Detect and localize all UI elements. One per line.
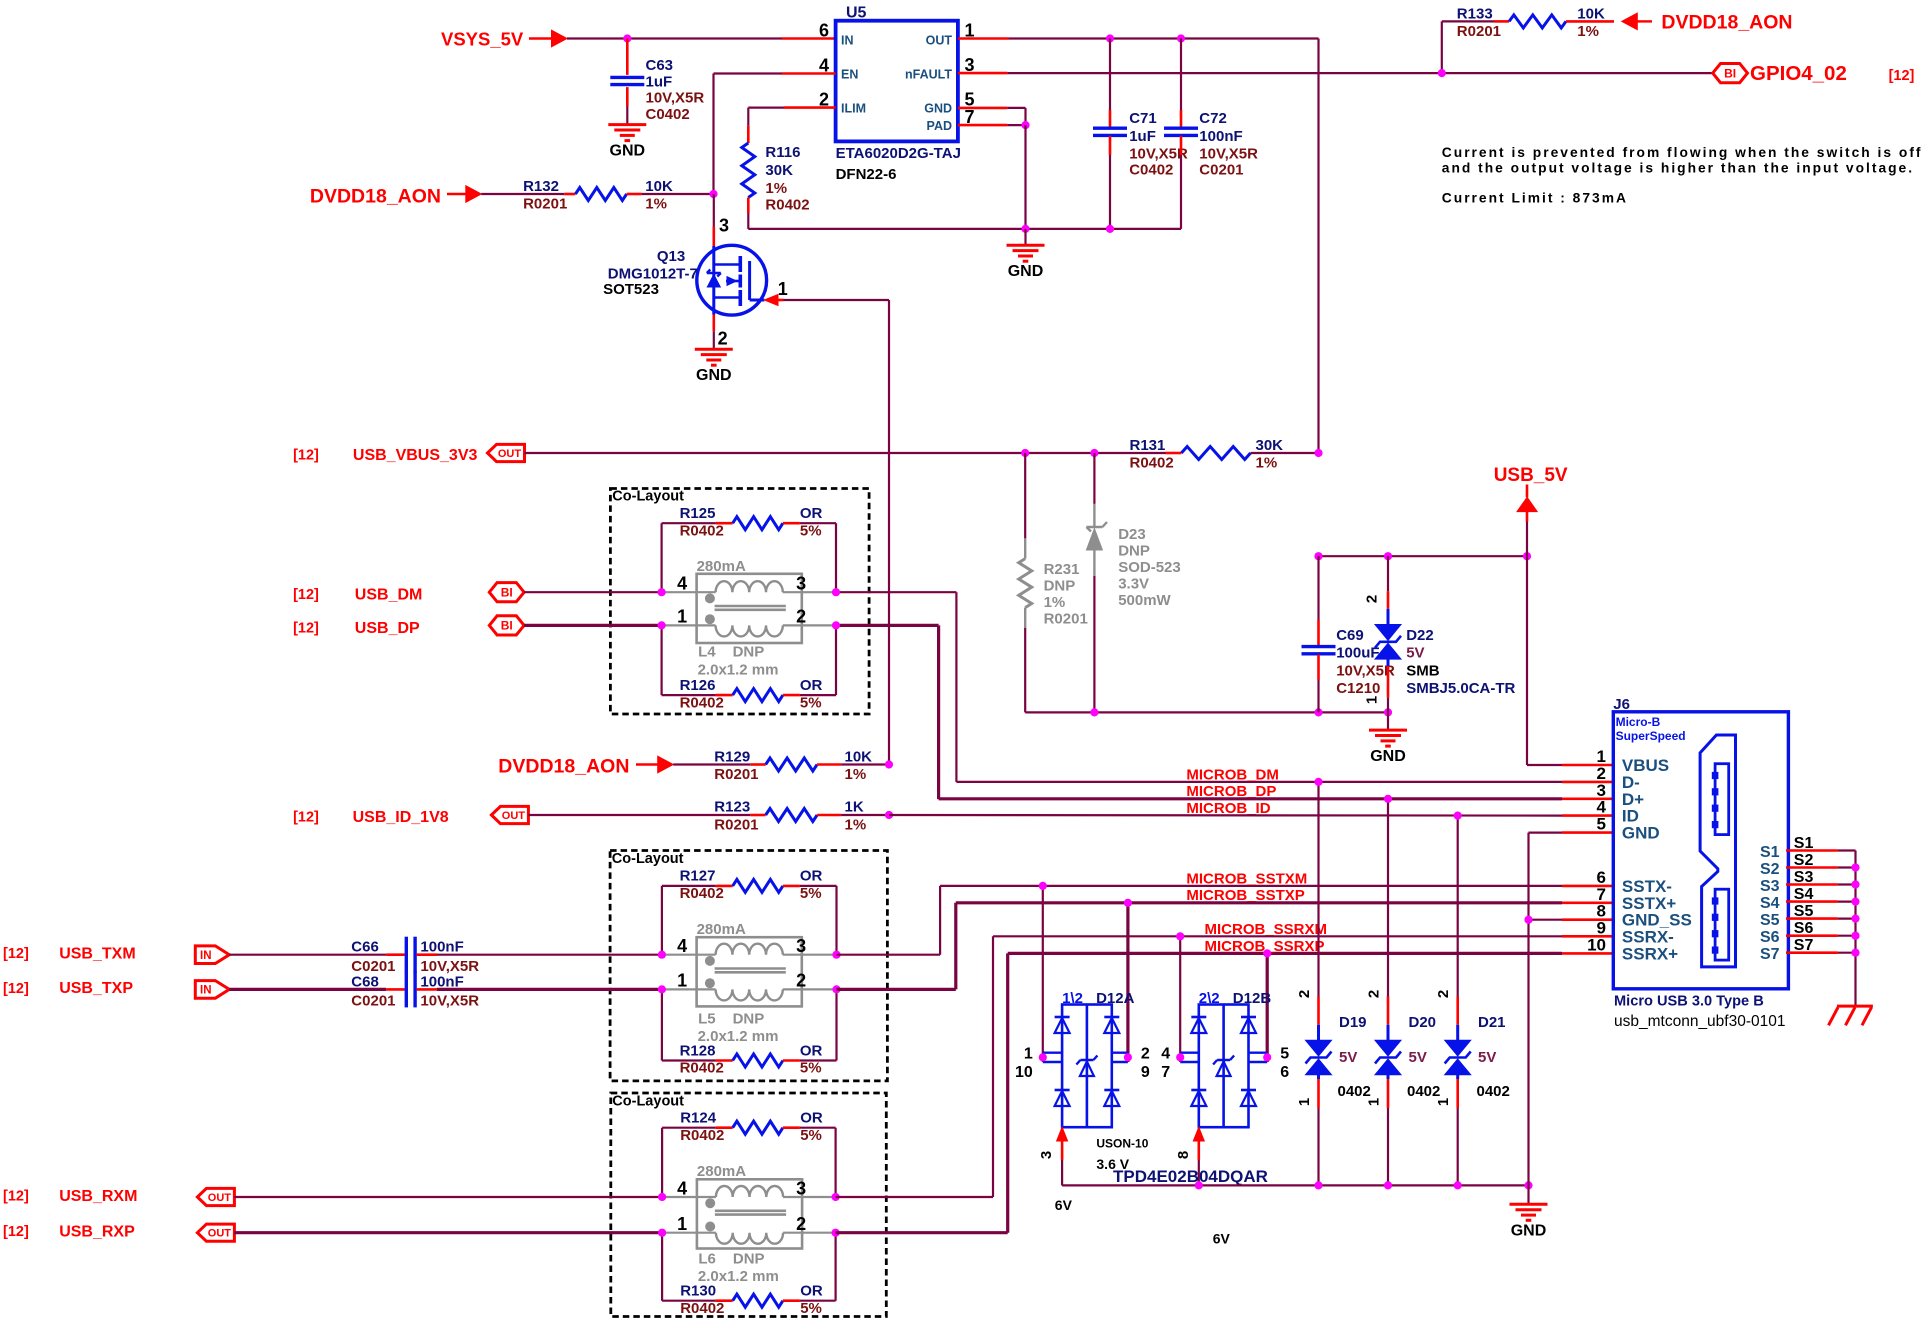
svg-text:OUT: OUT	[502, 810, 526, 822]
port USB_TXM IN	[3, 946, 229, 964]
svg-text:USON-10: USON-10	[1096, 1137, 1148, 1151]
wire GND rail R231-D23-C69-D22	[1025, 711, 1388, 713]
svg-text:R0402: R0402	[680, 1060, 724, 1077]
svg-text:5%: 5%	[800, 1060, 822, 1077]
svg-text:10V,X5R: 10V,X5R	[1129, 146, 1188, 163]
svg-text:5: 5	[1597, 815, 1606, 834]
wire MICROB_SSRXP	[836, 953, 1614, 1232]
svg-text:R0402: R0402	[680, 694, 724, 711]
svg-text:1: 1	[677, 1214, 687, 1234]
svg-text:1%: 1%	[1044, 594, 1066, 611]
svg-text:3: 3	[1038, 1151, 1055, 1159]
node D23 bottom junction	[1090, 708, 1098, 716]
diode D19 TVS 5V	[1296, 782, 1371, 1186]
svg-text:OR: OR	[800, 1042, 823, 1059]
svg-text:280mA: 280mA	[697, 558, 746, 575]
node VSYS junction at C63	[623, 34, 631, 42]
svg-text:R132: R132	[523, 178, 559, 195]
svg-text:S5: S5	[1794, 903, 1814, 920]
svg-text:USB_RXM: USB_RXM	[59, 1188, 137, 1205]
U5 pin 1 number	[965, 21, 975, 41]
wire MICROB_DM vertical and horizontal	[956, 592, 1613, 782]
svg-text:S4: S4	[1760, 895, 1780, 912]
inductor L6 common-mode choke DNP	[662, 1163, 837, 1285]
svg-text:Micro-B: Micro-B	[1616, 715, 1661, 729]
L4 pin 2 number	[796, 607, 806, 627]
U5 pin 2 number	[819, 90, 829, 110]
svg-text:BI: BI	[501, 619, 513, 633]
resistor R131 30K	[1130, 437, 1319, 472]
svg-text:S5: S5	[1760, 912, 1780, 929]
wire bottom GND rail of protection diodes	[1062, 1184, 1528, 1186]
svg-text:Co-Layout: Co-Layout	[612, 489, 684, 505]
svg-text:10: 10	[1587, 935, 1606, 954]
node USB_RXP right	[832, 1229, 840, 1237]
svg-text:R0402: R0402	[765, 197, 809, 214]
U5 pin 6 number	[819, 21, 829, 41]
svg-text:S2: S2	[1760, 861, 1780, 878]
svg-text:7: 7	[1161, 1064, 1170, 1081]
svg-text:D22: D22	[1406, 627, 1434, 644]
wire USB_5V to J6 VBUS	[1527, 556, 1613, 765]
svg-text:S4: S4	[1794, 886, 1814, 903]
svg-text:USB_RXP: USB_RXP	[59, 1224, 135, 1241]
power input port VSYS_5V	[441, 29, 567, 50]
svg-text:R116: R116	[765, 144, 800, 161]
svg-text:6V: 6V	[1055, 1197, 1073, 1213]
svg-text:5%: 5%	[800, 1127, 822, 1144]
node D12B top tap on SSRXM	[1176, 932, 1184, 940]
wire USB_VBUS_3V3	[525, 452, 1166, 454]
node D20 tap on MICROB_DP	[1384, 795, 1392, 803]
svg-text:R127: R127	[680, 868, 716, 885]
svg-text:GND: GND	[924, 102, 952, 116]
svg-text:Current is prevented from flow: Current is prevented from flowing when t…	[1442, 145, 1923, 160]
capacitor C68 100nF	[229, 971, 479, 1009]
svg-text:[12]: [12]	[293, 810, 319, 826]
node USB_DM right	[832, 588, 840, 596]
L4 pin 1 number	[677, 607, 687, 627]
svg-text:OR: OR	[800, 505, 823, 522]
port USB_RXM OUT	[3, 1188, 234, 1206]
wire MICROB_DP vertical and horizontal	[939, 625, 1614, 799]
co-layout group 2 dashed box	[610, 851, 887, 1081]
net label MICROB_SSRXP	[1205, 938, 1325, 955]
svg-text:5%: 5%	[800, 522, 822, 539]
diode D21 TVS 5V	[1435, 816, 1510, 1186]
svg-text:1uF: 1uF	[1129, 128, 1156, 145]
svg-text:R0402: R0402	[680, 522, 724, 539]
node C69 bottom junction	[1314, 708, 1322, 716]
svg-text:3.3V: 3.3V	[1118, 576, 1149, 593]
svg-text:1: 1	[677, 607, 687, 627]
resistor R128 0R	[662, 989, 837, 1076]
svg-text:DFN22-6: DFN22-6	[836, 166, 897, 183]
net label MICROB_SSTXM	[1186, 870, 1307, 887]
L6 pin 1 number	[677, 1214, 687, 1234]
node USB_TXP left	[658, 985, 666, 993]
svg-text:500mW: 500mW	[1118, 592, 1171, 609]
J6 pin 10 SSRX+	[1587, 935, 1678, 963]
svg-text:1: 1	[1024, 1046, 1033, 1063]
wire Q13 gate to MICROB_ID vertical	[784, 300, 890, 765]
L5 pin 2 number	[796, 971, 806, 991]
wire USB_DM	[524, 591, 956, 593]
svg-text:DMG1012T-7: DMG1012T-7	[608, 266, 698, 283]
wire U5 nFAULT to GPIO4_02	[958, 72, 1713, 75]
svg-text:1: 1	[1435, 1098, 1452, 1106]
wire MICROB_SSTXM	[837, 886, 1614, 955]
svg-text:9: 9	[1141, 1064, 1150, 1081]
svg-text:1uF: 1uF	[646, 74, 673, 91]
svg-text:BI: BI	[501, 586, 513, 600]
svg-text:C66: C66	[351, 939, 379, 956]
svg-text:SOD-523: SOD-523	[1118, 559, 1181, 576]
svg-text:GND: GND	[1008, 263, 1044, 280]
svg-text:3: 3	[796, 574, 806, 594]
resistor R123 1K	[528, 799, 889, 834]
J6 pin 8 GND_SS	[1597, 902, 1692, 930]
svg-text:PAD: PAD	[927, 119, 952, 133]
svg-text:10V,X5R: 10V,X5R	[1336, 662, 1395, 679]
ground below C63	[608, 125, 646, 160]
svg-text:L4: L4	[698, 644, 716, 661]
svg-text:OUT: OUT	[208, 1228, 232, 1240]
svg-text:10V,X5R: 10V,X5R	[420, 992, 479, 1009]
svg-text:C1210: C1210	[1336, 680, 1380, 697]
svg-text:R231: R231	[1044, 561, 1080, 578]
L5 pin 4 number	[677, 936, 687, 956]
svg-text:R0402: R0402	[680, 1300, 724, 1317]
TVS array D12B TPD4E02B04DQAR unit 2	[1113, 936, 1289, 1246]
svg-text:MICROB_SSRXM: MICROB_SSRXM	[1205, 921, 1328, 938]
svg-text:nFAULT: nFAULT	[905, 68, 952, 82]
svg-text:R125: R125	[680, 505, 716, 522]
svg-text:R133: R133	[1457, 6, 1493, 23]
svg-text:1: 1	[677, 971, 687, 991]
net label MICROB_SSTXP	[1186, 887, 1304, 904]
svg-text:MICROB_DP: MICROB_DP	[1186, 783, 1276, 800]
wire R133 to GPIO net	[1441, 21, 1443, 73]
svg-text:5V: 5V	[1339, 1049, 1357, 1066]
svg-text:5V: 5V	[1406, 645, 1424, 662]
svg-text:USB_DP: USB_DP	[355, 620, 420, 637]
svg-text:OUT: OUT	[208, 1192, 232, 1204]
J6 pin S5	[1760, 903, 1860, 929]
svg-text:280mA: 280mA	[697, 1163, 746, 1180]
svg-text:S1: S1	[1794, 835, 1814, 852]
svg-text:ILIM: ILIM	[841, 102, 866, 116]
svg-text:L5: L5	[698, 1011, 716, 1028]
svg-text:C0201: C0201	[351, 992, 395, 1009]
L5 pin 3 number	[796, 936, 806, 956]
node D19 tap on MICROB_DM	[1314, 778, 1322, 786]
ground below protection rail	[1510, 1185, 1548, 1239]
svg-text:[12]: [12]	[1889, 68, 1915, 84]
node GND_SS pin 8 tap	[1524, 916, 1532, 924]
svg-text:10: 10	[1015, 1064, 1033, 1081]
J6 pin S4	[1760, 886, 1860, 912]
connector J6 Micro USB 3.0 Type B body	[1613, 696, 1788, 1030]
svg-text:R124: R124	[680, 1110, 717, 1127]
port USB_DM BI	[293, 583, 524, 604]
svg-text:2: 2	[796, 607, 806, 627]
wire GND_SS vertical to J6 pins 5 and 8	[1529, 833, 1614, 1186]
svg-text:S2: S2	[1794, 852, 1814, 869]
svg-text:OR: OR	[800, 677, 823, 694]
svg-text:D19: D19	[1339, 1014, 1367, 1031]
svg-text:OR: OR	[800, 1283, 823, 1300]
svg-text:OUT: OUT	[926, 34, 953, 48]
note text current limit	[1442, 145, 1923, 206]
svg-text:5%: 5%	[800, 694, 822, 711]
svg-text:1%: 1%	[1256, 455, 1278, 472]
svg-text:C0201: C0201	[1199, 162, 1243, 179]
svg-text:S7: S7	[1760, 946, 1780, 963]
svg-text:2: 2	[718, 329, 728, 349]
svg-text:SMBJ5.0CA-TR: SMBJ5.0CA-TR	[1406, 680, 1515, 697]
svg-text:4: 4	[677, 936, 687, 956]
J6 pin 4 ID	[1597, 798, 1639, 826]
J6 pin 5 GND	[1597, 815, 1660, 843]
svg-text:2: 2	[1141, 1046, 1150, 1063]
resistor R231 DNP	[1019, 453, 1088, 712]
port USB_VBUS_3V3 OUT	[293, 444, 524, 464]
svg-text:5%: 5%	[800, 1300, 822, 1317]
svg-text:and the output voltage is high: and the output voltage is higher than th…	[1442, 161, 1914, 176]
svg-text:[12]: [12]	[293, 448, 319, 464]
svg-text:USB_5V: USB_5V	[1494, 465, 1568, 486]
svg-text:USB_TXM: USB_TXM	[59, 946, 135, 963]
svg-text:100nF: 100nF	[1199, 128, 1242, 145]
node USB_5V at D22	[1384, 552, 1392, 560]
node R131 left junction D23	[1090, 449, 1098, 457]
net label MICROB_DP	[1186, 783, 1276, 800]
node R132-EN junction	[709, 190, 717, 198]
svg-text:2: 2	[796, 1214, 806, 1234]
J6 pin 1 VBUS	[1597, 747, 1670, 775]
resistor R116 30K	[742, 108, 810, 229]
svg-text:GND: GND	[610, 143, 646, 160]
node R131 right junction USB_5V	[1314, 449, 1322, 457]
svg-text:DNP: DNP	[733, 1251, 765, 1268]
node USB_5V at VBUS drop	[1523, 552, 1531, 560]
J6 pin 6 SSTX-	[1597, 868, 1672, 896]
svg-text:BI: BI	[1724, 66, 1736, 80]
svg-text:R0201: R0201	[523, 196, 567, 213]
capacitor C71 1uF	[1093, 34, 1188, 233]
svg-text:2: 2	[796, 971, 806, 991]
svg-text:5V: 5V	[1478, 1049, 1496, 1066]
net label MICROB_SSRXM	[1205, 921, 1328, 938]
wire USB_RXP	[234, 1231, 662, 1234]
J6 pin S1	[1760, 835, 1856, 861]
svg-text:DVDD18_AON: DVDD18_AON	[310, 186, 441, 208]
port USB_ID_1V8 OUT	[293, 806, 528, 826]
svg-text:S7: S7	[1794, 937, 1814, 954]
port USB_DP BI	[293, 616, 524, 637]
svg-text:R123: R123	[714, 799, 750, 816]
diode D20 TVS 5V	[1366, 799, 1441, 1186]
net label MICROB_DM	[1186, 767, 1279, 784]
svg-text:1\2: 1\2	[1062, 990, 1083, 1007]
svg-text:4: 4	[677, 574, 687, 594]
op-amp U5 ETA6020D2G-TAJ body	[836, 5, 961, 184]
svg-text:0402: 0402	[1338, 1083, 1371, 1100]
ground below U5	[1007, 229, 1045, 280]
svg-text:R131: R131	[1130, 437, 1166, 454]
svg-text:U5: U5	[846, 5, 867, 22]
svg-text:1%: 1%	[765, 180, 787, 197]
node R133 tap on GPIO4_02 net	[1438, 69, 1446, 77]
svg-text:100nF: 100nF	[420, 939, 463, 956]
ground below Q13	[695, 349, 733, 384]
wire PAD node down to GND rail	[1024, 125, 1026, 229]
wire USB_5V horizontal	[1319, 555, 1528, 557]
U5 pin 3 number	[965, 55, 975, 75]
svg-text:6V: 6V	[1213, 1231, 1231, 1247]
node D12A top tap on SSTXM	[1039, 882, 1047, 890]
svg-text:S6: S6	[1794, 920, 1814, 937]
power input port DVDD18_AON mid	[498, 756, 673, 778]
svg-text:OUT: OUT	[498, 448, 522, 460]
resistor R132 10K	[481, 178, 713, 213]
svg-text:SuperSpeed: SuperSpeed	[1616, 729, 1686, 743]
node rail D12B pin 8	[1195, 1181, 1203, 1189]
svg-text:Co-Layout: Co-Layout	[612, 1094, 684, 1110]
node rail D20	[1384, 1181, 1392, 1189]
node USB_TXM right	[832, 951, 840, 959]
svg-text:GND: GND	[696, 367, 732, 384]
svg-text:10V,X5R: 10V,X5R	[1199, 146, 1258, 163]
svg-text:30K: 30K	[765, 162, 793, 179]
svg-text:[12]: [12]	[3, 946, 29, 962]
inductor L5 common-mode choke DNP	[662, 921, 837, 1045]
svg-text:S3: S3	[1794, 869, 1814, 886]
svg-text:3: 3	[796, 936, 806, 956]
L4 pin 4 number	[677, 574, 687, 594]
svg-text:MICROB_SSTXM: MICROB_SSTXM	[1186, 870, 1307, 887]
svg-text:USB_VBUS_3V3: USB_VBUS_3V3	[353, 447, 478, 464]
svg-text:5: 5	[1280, 1046, 1289, 1063]
svg-text:[12]: [12]	[3, 981, 29, 997]
svg-text:D21: D21	[1478, 1014, 1506, 1031]
J6 pin S7	[1760, 937, 1860, 963]
node D12A pins 1-10	[1039, 1053, 1047, 1061]
U5 pin 4 number	[819, 56, 829, 76]
svg-text:USB_ID_1V8: USB_ID_1V8	[353, 809, 449, 826]
node D22 bottom junction	[1384, 708, 1392, 716]
svg-text:R0201: R0201	[1457, 23, 1501, 40]
J6 pin S6	[1760, 920, 1860, 946]
svg-text:C71: C71	[1129, 110, 1157, 127]
node rail D19	[1314, 1181, 1322, 1189]
svg-text:IN: IN	[841, 34, 854, 48]
svg-text:10K: 10K	[845, 749, 873, 766]
node R131 left junction R231	[1021, 449, 1029, 457]
resistor R133 10K	[1442, 6, 1614, 41]
Q13 pin 3 number	[719, 216, 729, 236]
node USB_RXM left	[658, 1193, 666, 1201]
svg-text:S3: S3	[1760, 878, 1780, 895]
resistor R126 0R	[662, 625, 836, 711]
resistor R127 0R	[662, 868, 837, 955]
wire EN net from R132 node to U5 pin 4	[714, 74, 836, 195]
svg-text:[12]: [12]	[3, 1224, 29, 1240]
svg-text:SSRX+: SSRX+	[1622, 944, 1678, 963]
svg-text:TPD4E02B04DQAR: TPD4E02B04DQAR	[1113, 1167, 1268, 1186]
svg-text:2\2: 2\2	[1199, 990, 1220, 1007]
resistor R130 0R	[662, 1233, 836, 1317]
port USB_TXP IN	[3, 980, 229, 998]
transistor Q13 DMG1012T-7	[603, 194, 767, 315]
svg-text:280mA: 280mA	[697, 921, 746, 938]
svg-text:IN: IN	[200, 985, 212, 997]
svg-text:R0402: R0402	[680, 1127, 724, 1144]
resistor R125 0R	[662, 505, 836, 592]
svg-text:GND: GND	[1622, 824, 1660, 843]
wire USB_DP	[524, 624, 939, 627]
TVS array D12A TPD4E02B04DQAR unit 1	[1015, 886, 1150, 1213]
svg-text:C0402: C0402	[1129, 162, 1173, 179]
svg-text:2: 2	[1296, 990, 1313, 998]
svg-text:USB_DM: USB_DM	[355, 587, 423, 604]
node D12B top tap on SSRXP	[1263, 949, 1271, 957]
svg-text:GPIO4_02: GPIO4_02	[1750, 62, 1847, 85]
node D12A pins 2-9	[1124, 1053, 1132, 1061]
svg-text:S1: S1	[1760, 844, 1780, 861]
svg-text:2: 2	[1364, 595, 1381, 603]
node USB_TXP right	[832, 985, 840, 993]
L6 pin 3 number	[796, 1178, 806, 1198]
wire GND rail under U5	[748, 228, 1181, 230]
node D12B pins 4-7	[1176, 1053, 1184, 1061]
svg-text:DVDD18_AON: DVDD18_AON	[1661, 12, 1792, 34]
resistor R124 0R	[662, 1110, 836, 1198]
node GND rail at U5 ground drop	[1021, 225, 1029, 233]
node R129-gate junction	[885, 760, 893, 768]
wire USB_TXP to choke	[437, 988, 662, 991]
capacitor C72 100nF	[1164, 34, 1258, 229]
L6 pin 2 number	[796, 1214, 806, 1234]
svg-text:1: 1	[778, 279, 788, 299]
svg-text:SMB: SMB	[1406, 662, 1440, 679]
U5 pin 2 ILIM stub	[748, 106, 835, 109]
svg-text:R0201: R0201	[1044, 611, 1088, 628]
inductor L4 common-mode choke DNP	[662, 558, 837, 679]
U5 pin 7 number	[965, 107, 975, 127]
wire USB_RXM	[234, 1196, 662, 1198]
chassis ground symbol	[1829, 1006, 1873, 1025]
J6 pin S3	[1760, 869, 1860, 895]
svg-text:2: 2	[1435, 990, 1452, 998]
power input port DVDD18_AON top right	[1622, 12, 1793, 34]
svg-text:R0402: R0402	[680, 885, 724, 902]
co-layout group 3 dashed box	[611, 1093, 887, 1317]
svg-text:100nF: 100nF	[420, 973, 463, 990]
J6 pin 7 SSTX+	[1597, 885, 1677, 913]
svg-text:OR: OR	[800, 868, 823, 885]
svg-text:D20: D20	[1409, 1014, 1437, 1031]
resistor R129 10K	[673, 749, 889, 784]
diode D23 DNP zener	[1086, 453, 1180, 712]
co-layout group 1 dashed box	[610, 489, 869, 715]
node D12A top tap on SSTXP	[1124, 899, 1132, 907]
svg-text:R0402: R0402	[1130, 455, 1174, 472]
svg-text:6: 6	[819, 21, 829, 41]
svg-text:Co-Layout: Co-Layout	[612, 851, 684, 867]
L5 pin 1 number	[677, 971, 687, 991]
